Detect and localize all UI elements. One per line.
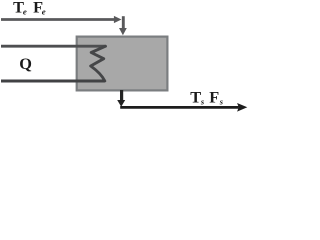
- svg-text:T: T: [190, 88, 201, 107]
- arrowhead down into tank top: [119, 28, 127, 35]
- svg-text:e: e: [23, 7, 27, 17]
- tank (stirred tank vessel): [77, 37, 168, 91]
- wire coil lower line Q: [1, 80, 105, 83]
- svg-text:F: F: [209, 88, 219, 107]
- svg-text:Q: Q: [19, 54, 32, 73]
- arrowhead right on outlet line: [237, 103, 247, 112]
- svg-text:e: e: [42, 7, 46, 17]
- wire inlet feed line Te Fe: [1, 18, 115, 21]
- wire coil upper line: [1, 45, 106, 48]
- wire elbow down into tank: [122, 16, 125, 29]
- svg-text:s: s: [200, 97, 204, 106]
- svg-text:s: s: [219, 97, 223, 106]
- wire outlet drop from tank bottom: [120, 90, 123, 101]
- heating coil zigzag: [91, 46, 106, 81]
- arrowhead down at outlet junction: [117, 100, 125, 107]
- arrowhead right on feed line: [114, 16, 122, 23]
- wire outlet line Ts Fs: [120, 106, 238, 109]
